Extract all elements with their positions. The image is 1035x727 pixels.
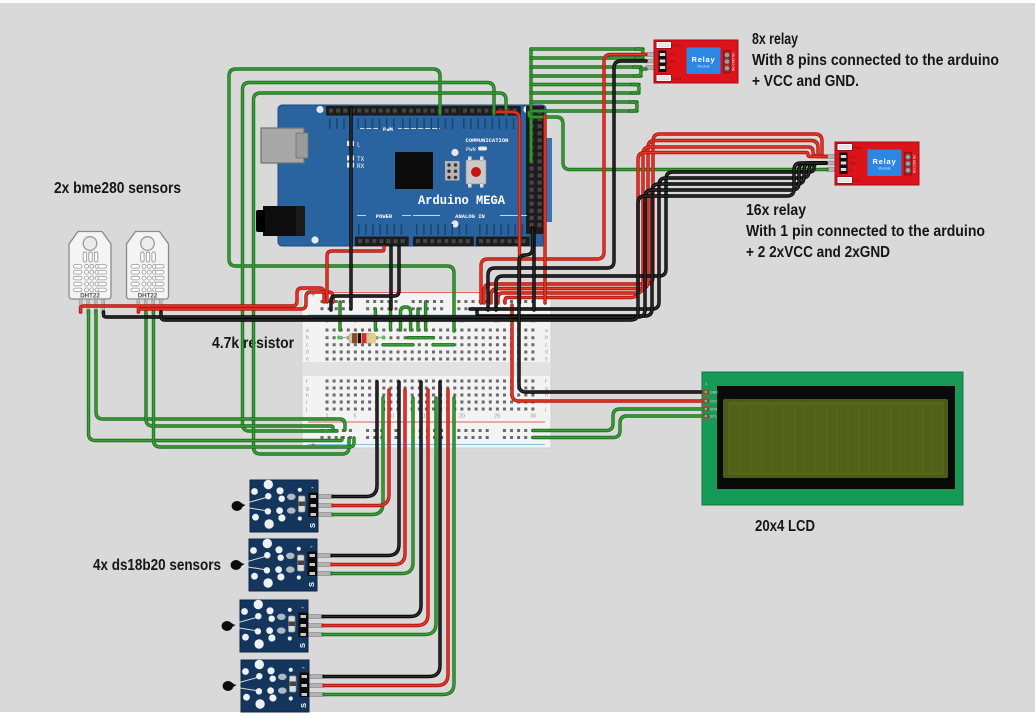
- svg-text:e: e: [306, 357, 309, 363]
- wire G-R1 trunk green: [529, 49, 532, 162]
- wire G-R1 fan1 green: [531, 56, 643, 59]
- wire B-R1 black relay1 GND: [488, 61, 646, 310]
- svg-text:-: -: [302, 663, 305, 672]
- svg-text:g: g: [306, 386, 309, 392]
- wire R-hdr red right: [497, 112, 520, 303]
- svg-text:NO COM NC: NO COM NC: [732, 52, 736, 71]
- power jack: [263, 206, 305, 236]
- svg-text:IN: IN: [668, 66, 672, 70]
- wire R-M4 red: [324, 390, 448, 686]
- svg-text:8x relay: 8x relay: [752, 31, 798, 48]
- svg-text:POWER: POWER: [376, 213, 393, 220]
- wire R-DHT1 red: [81, 288, 325, 312]
- svg-text:GND: GND: [710, 391, 718, 395]
- wire G-M3 green: [323, 398, 436, 635]
- wire G-R1 U green: [636, 49, 643, 58]
- ICSP header: [445, 161, 460, 181]
- LCD 20x4 LCD1: [702, 372, 963, 505]
- svg-text:S: S: [298, 643, 307, 648]
- svg-text:a: a: [306, 328, 309, 334]
- svg-text:h: h: [545, 393, 548, 399]
- wire G-J5 green: [416, 309, 419, 330]
- svg-text:16x relay: 16x relay: [746, 202, 806, 219]
- wire G-R1 fan6 green: [531, 100, 637, 103]
- svg-text:NO COM NC: NO COM NC: [913, 154, 917, 173]
- wire G-R1 fan3 green: [531, 74, 641, 77]
- header top digital: [326, 106, 401, 116]
- wire R-M3 red: [323, 390, 428, 626]
- LCD pin SDA: [703, 407, 710, 411]
- svg-text:d: d: [545, 349, 548, 355]
- wire G-R1 fan4 green: [531, 83, 639, 86]
- wire G-R1 U green: [634, 67, 641, 76]
- svg-text:DHT22: DHT22: [138, 293, 158, 300]
- svg-text:Relay: Relay: [872, 157, 896, 166]
- wire G-R1 fan5 green: [531, 91, 639, 94]
- wire G-J6 green: [424, 302, 427, 330]
- svg-text:+ VCC and GND.: + VCC and GND.: [752, 73, 859, 90]
- wire R-R2b red: [491, 141, 826, 304]
- wire G-J4 green U: [401, 307, 411, 330]
- svg-text:VCC: VCC: [710, 400, 718, 404]
- LCD pin SCL: [703, 414, 710, 418]
- svg-text:IN: IN: [849, 168, 853, 172]
- resistor R1 4.7k: [337, 333, 386, 344]
- wire B-DHT1 black: [104, 163, 827, 317]
- wire R-5V red: [327, 247, 384, 302]
- wire B-LCD black: [519, 228, 702, 392]
- wire R-DHT2 red: [139, 292, 334, 312]
- wire B-R2b black: [470, 163, 826, 309]
- wire B-GND2 black: [331, 247, 399, 310]
- wire GN-A green nest: [229, 69, 454, 331]
- wire G-M1 green: [333, 398, 383, 515]
- svg-text:SDA: SDA: [710, 408, 718, 412]
- LCD pin GND: [703, 390, 710, 394]
- mounting holes: [316, 106, 323, 113]
- ds18b20 module DS2: [231, 539, 333, 591]
- ds18b20 module DS1: [232, 480, 334, 532]
- wire G-DHT1a green: [89, 311, 343, 441]
- wire G-R1 U green: [630, 102, 637, 111]
- svg-text:LED1: LED1: [673, 77, 682, 81]
- Arduino MEGA U1: [256, 105, 552, 246]
- wire G-DHT1b green: [96, 311, 345, 430]
- svg-text:S: S: [307, 582, 316, 587]
- wire R-LCD red: [512, 305, 702, 401]
- wire B-M3 black: [323, 382, 421, 617]
- svg-text:b: b: [306, 335, 309, 341]
- svg-text:DHT22: DHT22: [80, 293, 100, 300]
- svg-text:PWR: PWR: [673, 44, 682, 48]
- wire R-hdr2 red: [543, 116, 546, 303]
- wire G-M2 green: [332, 398, 413, 574]
- wire G-R1 fan7 green: [531, 109, 637, 112]
- svg-text:VCC: VCC: [668, 53, 676, 57]
- wire G-R1 U green: [632, 85, 639, 94]
- svg-text:a: a: [545, 328, 548, 334]
- wire B-M1 black: [333, 382, 377, 497]
- svg-text:b: b: [545, 335, 548, 341]
- wire R-R2d red: [505, 153, 826, 304]
- ds18b20 module DS3: [222, 600, 324, 652]
- svg-text:PWR: PWR: [854, 146, 863, 150]
- wire GN-C green nest: [254, 93, 507, 454]
- microcontroller chip: [395, 152, 433, 189]
- wire G-M4 green: [324, 398, 454, 695]
- svg-text:30: 30: [530, 414, 536, 420]
- svg-text:S: S: [299, 703, 308, 708]
- svg-text:+ 2 2xVCC and 2xGND: + 2 2xVCC and 2xGND: [746, 244, 890, 261]
- svg-text:j: j: [544, 407, 546, 413]
- svg-text:d: d: [306, 349, 309, 355]
- relay module RLY2 16x: [826, 142, 919, 185]
- svg-text:With 1 pin connected to the ar: With 1 pin connected to the arduino: [746, 223, 985, 240]
- svg-text:5: 5: [353, 414, 356, 420]
- svg-text:LED1: LED1: [854, 179, 863, 183]
- wire G-J1 green: [338, 302, 341, 330]
- wire G-R1 fan2 green: [531, 65, 641, 68]
- svg-text:-: -: [311, 483, 314, 492]
- svg-text:h: h: [306, 393, 309, 399]
- svg-text:Arduino MEGA: Arduino MEGA: [418, 193, 505, 208]
- wire G-J7 green row b: [408, 336, 433, 339]
- header right double row: [544, 138, 552, 222]
- svg-text:SCL: SCL: [710, 415, 717, 419]
- ds18b20 module DS4: [223, 660, 325, 712]
- wire G-J2 green: [374, 309, 377, 330]
- USB connector: [261, 128, 304, 163]
- svg-text:25: 25: [494, 414, 500, 420]
- svg-text:RX: RX: [357, 163, 365, 170]
- svg-text:TX: TX: [357, 156, 365, 163]
- wire G-J3 green: [389, 302, 392, 330]
- svg-text:-: -: [301, 603, 304, 612]
- LEDs L TX RX PWR: [347, 141, 354, 146]
- wire G-J9 green row c: [433, 343, 453, 346]
- svg-text:Module: Module: [697, 65, 709, 69]
- wire R-R2a red: [484, 134, 826, 303]
- wire B-hdr black: [532, 230, 535, 310]
- wire G-R2 green: [529, 112, 827, 170]
- wire R-R1 red relay1 VCC: [481, 55, 646, 304]
- wire B-cross black: [349, 108, 352, 309]
- svg-text:COMMUNICATION: COMMUNICATION: [466, 137, 509, 144]
- svg-text:GND: GND: [668, 60, 676, 64]
- breadboard BB1: [302, 291, 551, 449]
- svg-text:ANALOG IN: ANALOG IN: [455, 213, 485, 220]
- svg-text:S: S: [308, 523, 317, 528]
- svg-text:VCC: VCC: [849, 155, 857, 159]
- pin labels: [329, 118, 331, 129]
- relay module RLY1 8x: [645, 40, 738, 83]
- wire G-LCD1 green SDA: [533, 409, 702, 431]
- DHT22 sensor DHT1: [69, 232, 111, 314]
- svg-text:Module: Module: [878, 167, 890, 171]
- wire B-M4 black: [324, 382, 440, 677]
- svg-text:-: -: [310, 542, 313, 551]
- wire G-J8 green row c: [383, 343, 413, 346]
- svg-text:4x ds18b20 sensors: 4x ds18b20 sensors: [93, 557, 221, 574]
- svg-text:20: 20: [459, 414, 465, 420]
- svg-text:e: e: [545, 357, 548, 363]
- svg-text:Relay: Relay: [691, 55, 715, 64]
- wire G-LCD2 green SCL: [533, 416, 702, 438]
- wire B-R2a black: [496, 163, 826, 310]
- wire GN-B green nest: [243, 83, 495, 432]
- svg-text:20x4 LCD: 20x4 LCD: [755, 518, 815, 535]
- svg-text:PWR: PWR: [466, 146, 477, 153]
- wire R-M2 red: [332, 390, 405, 565]
- svg-text:2x bme280 sensors: 2x bme280 sensors: [54, 180, 181, 197]
- DHT22 sensor DHT2: [127, 232, 169, 314]
- wire G-R1 in green: [641, 67, 646, 70]
- LCD pin VCC: [703, 399, 710, 403]
- wire B-M2 black: [332, 382, 399, 556]
- wire G-DHT2b green: [154, 311, 355, 447]
- reset button: [466, 160, 486, 184]
- svg-text:With 8 pins connected to the a: With 8 pins connected to the arduino: [752, 52, 999, 69]
- wire R-M1 red: [333, 390, 389, 506]
- wire B-DHT2 black: [161, 163, 826, 320]
- wire B-GND1 black: [389, 247, 392, 309]
- svg-text:L: L: [357, 142, 361, 149]
- wire G-DHT2a green: [146, 311, 333, 430]
- header bottom power/analog: [355, 237, 409, 247]
- svg-text:i: i: [306, 400, 307, 406]
- svg-text:j: j: [305, 407, 307, 413]
- wire R-R2c red: [498, 147, 826, 303]
- wire G-R1 fan0 green: [531, 47, 643, 50]
- svg-text:PWM: PWM: [383, 126, 394, 133]
- svg-text:GND: GND: [849, 162, 857, 166]
- wire B-R2c black: [477, 163, 826, 316]
